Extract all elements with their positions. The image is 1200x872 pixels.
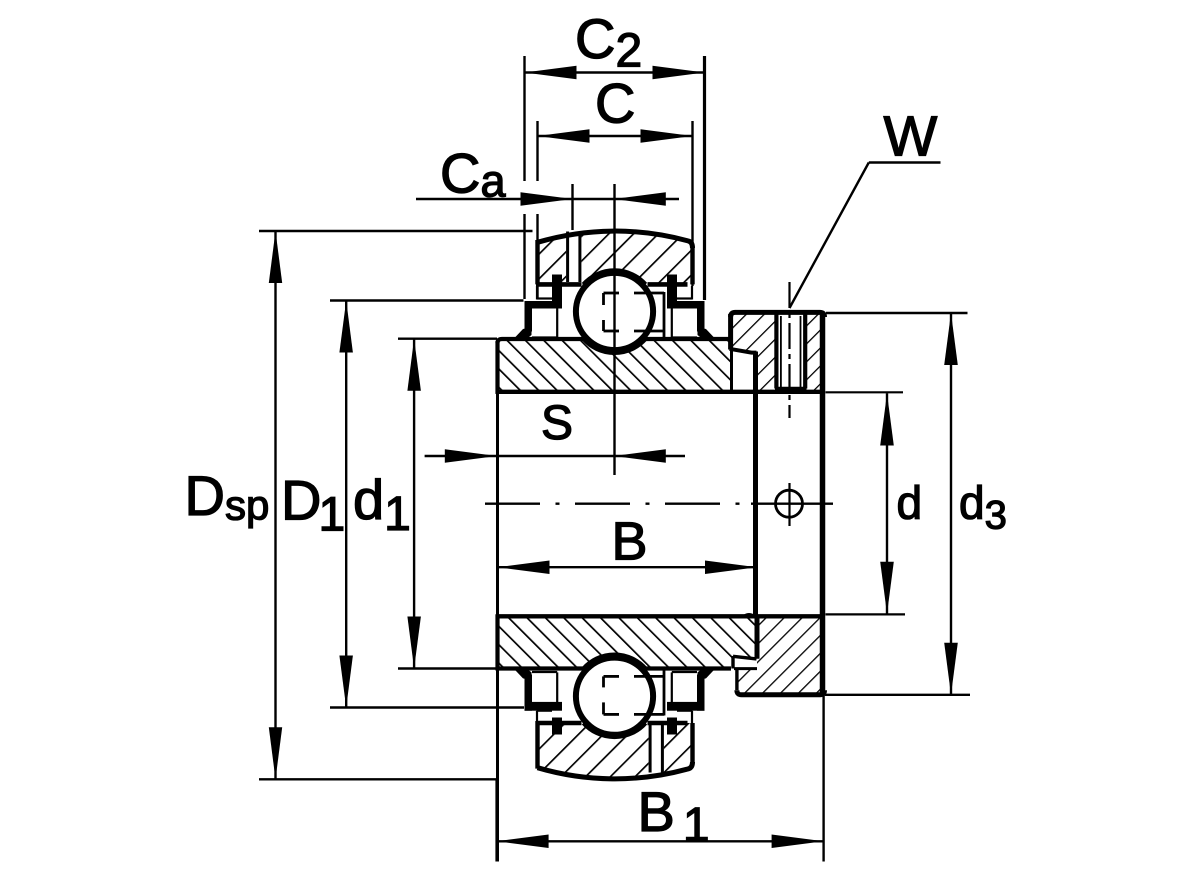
outer ring lower section (538, 723, 693, 779)
seal upper left (552, 275, 562, 309)
cage upper (604, 292, 620, 295)
drift pin hole (776, 490, 803, 517)
eccentric gap notch lower (733, 656, 757, 659)
svg-text:B: B (612, 512, 648, 572)
dimension d (826, 391, 904, 393)
inner ring right face / bore window silhouette (753, 352, 758, 617)
svg-text:W: W (884, 105, 938, 169)
seal lower right (667, 718, 677, 735)
collar right face silhouette (820, 312, 826, 694)
inner ring right face (in gap) (730, 350, 733, 392)
dimension S (425, 455, 685, 457)
seal upper right (667, 275, 677, 309)
dimension d3 (826, 312, 968, 314)
dimension B (498, 566, 758, 568)
inner ring lower sleeve section (498, 616, 758, 668)
svg-text:d: d (897, 477, 923, 529)
axis center line (485, 503, 742, 505)
ball center line upper (613, 184, 615, 475)
bore line lower (496, 614, 823, 618)
ball lower (576, 658, 653, 735)
dimension Dsp (259, 230, 533, 232)
inner ring upper section (498, 339, 732, 392)
dimension d1 (398, 338, 497, 340)
eccentric locking collar upper section (731, 312, 825, 391)
dimension C2 (523, 56, 525, 181)
dimension B1 (495, 779, 497, 862)
ball upper (576, 273, 653, 350)
dimension D1 (330, 299, 524, 301)
screw slot center line (788, 282, 790, 418)
eccentric locking collar lower section (737, 616, 825, 695)
cage lower (604, 675, 620, 678)
outer ring upper section (538, 231, 693, 284)
svg-text:S: S (541, 397, 573, 450)
inner ring left face silhouette (496, 394, 499, 862)
dimension Ca (571, 184, 573, 230)
dimension C (536, 121, 538, 181)
set screw slot in collar (778, 314, 805, 387)
bore line upper (496, 390, 825, 394)
lubrication hole slot lower (649, 725, 664, 774)
svg-text:C: C (595, 72, 635, 135)
lubrication hole slot upper (566, 232, 581, 283)
seal lower left (552, 718, 562, 735)
